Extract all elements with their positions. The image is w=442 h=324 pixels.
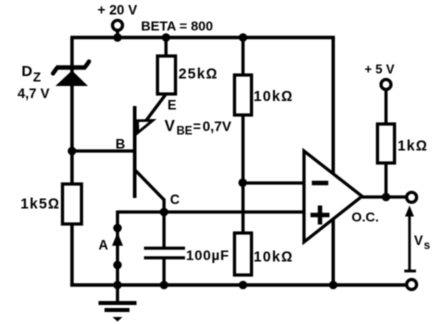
transistor Q1 emitter arrow (PNP) [138, 120, 153, 132]
wire 1k bottom lead [384, 163, 387, 197]
wire node C horizontal [118, 210, 305, 213]
op-amp plus sign [311, 213, 330, 217]
terminal +20V [113, 20, 123, 30]
resistor 25k [158, 56, 176, 94]
svg-text:O.C.: O.C. [352, 210, 379, 225]
svg-text:E: E [168, 98, 177, 113]
wire base [72, 149, 135, 152]
transistor Q1 base bar [133, 106, 137, 198]
wire op-amp supply vertical [332, 38, 335, 286]
wire left branch vertical [70, 38, 73, 287]
svg-text:+ 5 V: + 5 V [365, 63, 396, 77]
op-amp minus sign [312, 181, 329, 185]
wire top rail +20V [70, 36, 335, 39]
terminal +5V [381, 80, 391, 90]
svg-text:1kΩ: 1kΩ [398, 138, 429, 154]
wire op-amp output [362, 195, 407, 198]
resistor 10k lower [235, 233, 252, 275]
wire divider [241, 38, 244, 235]
svg-text:V: V [414, 233, 423, 248]
transistor Q1 emitter wire [136, 94, 166, 134]
node dot capacitor bottom [160, 281, 169, 290]
wire 1k top lead [384, 90, 387, 126]
wire node A vertical [116, 211, 119, 286]
svg-text:100µF: 100µF [186, 247, 229, 263]
svg-text:4,7 V: 4,7 V [18, 86, 51, 101]
svg-text:BE: BE [177, 126, 193, 138]
transistor Q1 collector wire [135, 170, 165, 201]
svg-text:B: B [116, 137, 126, 152]
svg-text:25kΩ: 25kΩ [179, 67, 219, 83]
node dot A lower [113, 261, 122, 270]
zener diode DZ [53, 62, 89, 87]
svg-text:BETA = 800: BETA = 800 [141, 18, 213, 33]
node dot left/base junction [68, 147, 77, 156]
node dot supply bottom [329, 281, 338, 290]
svg-text:V: V [165, 118, 176, 135]
wire minus input [243, 181, 304, 184]
terminal output Vs bottom [407, 280, 417, 290]
svg-text:1k5Ω: 1k5Ω [21, 197, 61, 213]
arrow Vs (upward) [408, 213, 411, 271]
node dot A at bottom rail [113, 281, 122, 290]
ground [99, 285, 137, 322]
svg-text:s: s [424, 240, 430, 252]
node dot 25k branch [162, 33, 171, 42]
svg-text:C: C [170, 192, 180, 207]
resistor 10k upper [235, 75, 252, 115]
wire 25k lead [164, 38, 167, 58]
resistor 1k [378, 124, 395, 163]
terminal output Vs top [407, 192, 417, 202]
resistor 1k5 [63, 184, 82, 224]
svg-text:Z: Z [33, 70, 41, 85]
svg-text:=: = [193, 119, 201, 134]
svg-text:D: D [22, 63, 33, 80]
svg-text:10kΩ: 10kΩ [254, 89, 294, 105]
capacitor 100uF [162, 212, 165, 247]
wire bottom rail [70, 283, 406, 286]
svg-text:10kΩ: 10kΩ [254, 249, 294, 265]
node dot divider bottom [239, 281, 248, 290]
node dot top rail at terminal [113, 33, 122, 42]
op-amp U1 [304, 151, 362, 242]
node dot output/1k [382, 193, 391, 202]
svg-text:+ 20 V: + 20 V [98, 2, 138, 17]
node dot divider top [239, 33, 248, 42]
arrow node A (upward) [112, 233, 123, 246]
node dot C [160, 208, 169, 217]
svg-text:0,7V: 0,7V [203, 118, 232, 134]
node dot minus tap [238, 178, 247, 187]
svg-text:A: A [99, 238, 109, 253]
node dot A upper [113, 224, 122, 233]
